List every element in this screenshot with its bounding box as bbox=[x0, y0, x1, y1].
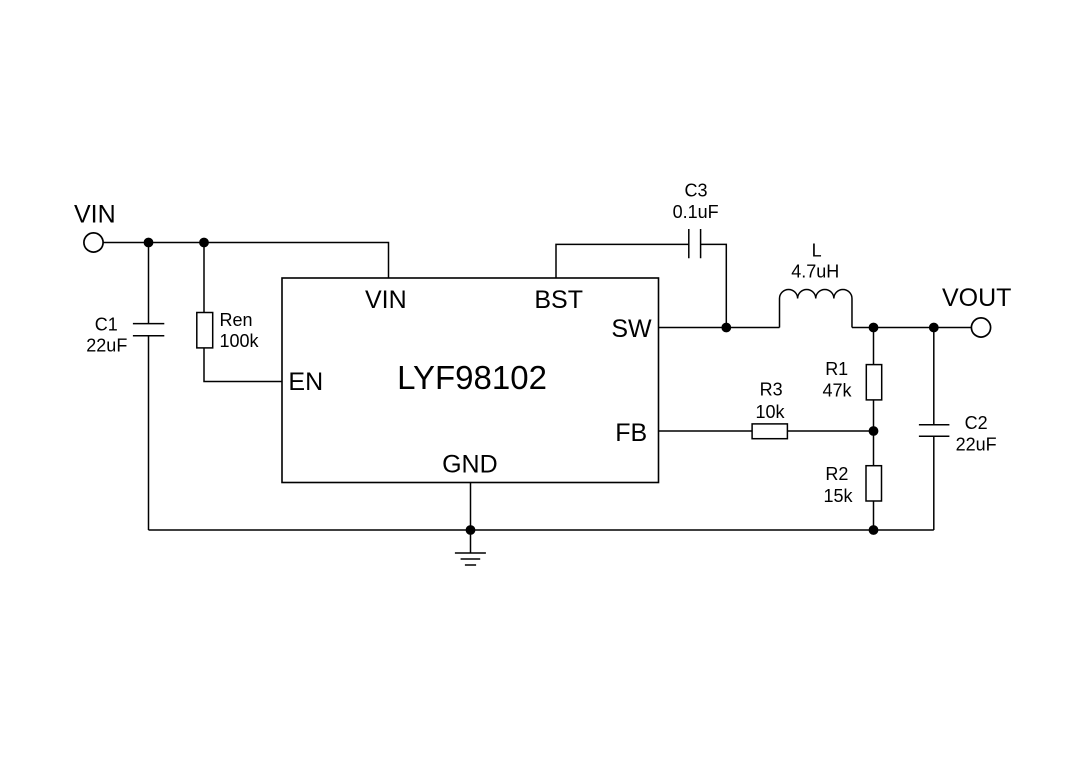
wire BST pin to C3 bbox=[556, 244, 689, 278]
junction node C1/VIN bbox=[144, 238, 154, 248]
svg-text:BST: BST bbox=[534, 286, 583, 314]
junction node GND/ground rail bbox=[466, 525, 476, 535]
svg-text:EN: EN bbox=[288, 368, 323, 396]
svg-text:R2: R2 bbox=[825, 464, 848, 484]
svg-text:15k: 15k bbox=[823, 486, 853, 506]
capacitor C2 bbox=[919, 425, 950, 437]
ground symbol bbox=[455, 530, 486, 565]
wire R1 to FB node bbox=[873, 400, 875, 431]
capacitor C3 bbox=[689, 229, 701, 258]
wire R2 branch top bbox=[873, 431, 875, 466]
svg-text:100k: 100k bbox=[220, 331, 260, 351]
wire C1 to ground rail bbox=[148, 336, 150, 530]
svg-text:0.1uF: 0.1uF bbox=[673, 202, 719, 222]
wire L to VOUT bbox=[852, 327, 971, 329]
wire VIN rail to IC VIN pin bbox=[103, 243, 388, 279]
ground rail bbox=[149, 529, 934, 531]
resistor R2 bbox=[866, 466, 882, 501]
svg-text:L: L bbox=[812, 241, 822, 261]
svg-text:4.7uH: 4.7uH bbox=[791, 262, 839, 282]
svg-text:SW: SW bbox=[611, 315, 652, 343]
wire C3 to SW node bbox=[701, 244, 727, 327]
wire R1 branch top bbox=[873, 328, 875, 365]
svg-text:10k: 10k bbox=[755, 402, 785, 422]
wire C2 bottom bbox=[933, 436, 935, 530]
wire C1 branch top bbox=[148, 243, 150, 324]
junction node R2/ground rail bbox=[869, 525, 879, 535]
junction node Ren/VIN bbox=[199, 238, 209, 248]
wire GND pin bbox=[470, 483, 472, 531]
wire FB pin to R3 bbox=[659, 430, 753, 432]
resistor R1 bbox=[866, 365, 881, 400]
junction node VOUT/C2 bbox=[929, 323, 939, 333]
junction node SW/C3 bbox=[721, 323, 731, 333]
svg-text:22uF: 22uF bbox=[956, 435, 997, 455]
terminal VIN bbox=[84, 233, 103, 252]
svg-text:R1: R1 bbox=[825, 359, 848, 379]
svg-text:VIN: VIN bbox=[74, 201, 116, 229]
wire R2 bottom bbox=[873, 501, 875, 530]
junction node FB bbox=[869, 426, 879, 436]
resistor R3 bbox=[752, 424, 787, 439]
svg-text:22uF: 22uF bbox=[86, 336, 127, 356]
svg-text:C1: C1 bbox=[95, 315, 118, 335]
junction node L/R1 bbox=[869, 323, 879, 333]
resistor Ren bbox=[197, 313, 213, 348]
wire C2 branch top bbox=[933, 328, 935, 425]
wire SW pin bbox=[659, 327, 780, 329]
terminal VOUT bbox=[971, 318, 990, 337]
wire Ren branch top bbox=[203, 243, 205, 313]
wire Ren to EN pin bbox=[204, 348, 282, 382]
svg-text:C2: C2 bbox=[965, 413, 988, 433]
wire R3 to FB node bbox=[787, 430, 873, 432]
svg-text:VOUT: VOUT bbox=[942, 284, 1011, 312]
svg-text:GND: GND bbox=[442, 451, 498, 479]
svg-text:LYF98102: LYF98102 bbox=[397, 359, 547, 396]
inductor L bbox=[780, 289, 852, 327]
svg-text:Ren: Ren bbox=[220, 310, 253, 330]
svg-text:FB: FB bbox=[615, 419, 647, 447]
svg-text:C3: C3 bbox=[684, 180, 707, 200]
svg-text:VIN: VIN bbox=[365, 286, 407, 314]
capacitor C1 bbox=[133, 324, 164, 336]
svg-text:R3: R3 bbox=[760, 380, 783, 400]
svg-text:47k: 47k bbox=[822, 381, 852, 401]
IC U1 LYF98102 box bbox=[282, 278, 659, 483]
